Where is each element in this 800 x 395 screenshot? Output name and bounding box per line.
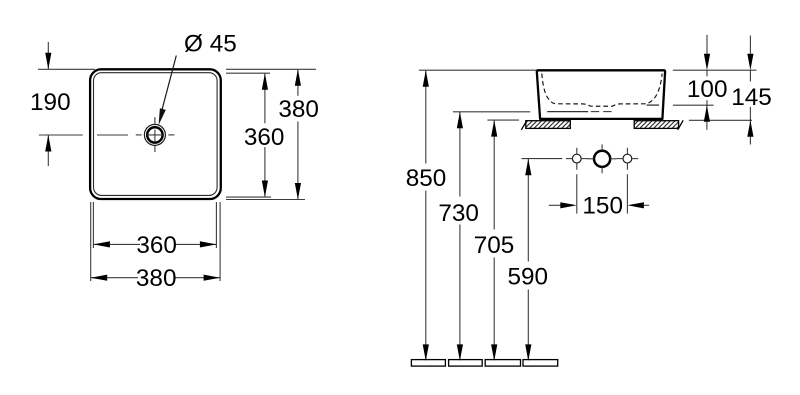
dim 145 text <box>731 84 772 111</box>
dim 850 text <box>406 165 447 192</box>
basin outer outline (top view) <box>90 69 221 199</box>
right side ext line 360 top <box>226 72 270 74</box>
counter cut tick left <box>521 120 527 130</box>
dim 850 arrows <box>423 70 429 361</box>
dim 360 horizontal line <box>93 243 216 245</box>
svg-text:380: 380 <box>278 96 319 123</box>
ext line below supply left <box>576 174 578 213</box>
dim 145 stubs <box>749 70 751 120</box>
drain circle cross <box>588 144 617 173</box>
dim 730 arrows <box>457 112 463 361</box>
ext line below supply right <box>626 174 628 213</box>
basin inner rim line (top view) <box>94 73 218 196</box>
dim 360 horizontal arrows <box>93 241 216 247</box>
ext line 705 top <box>487 119 519 121</box>
dim 190 bottom extension line <box>39 134 83 136</box>
bottom ext line 360 right <box>215 202 217 248</box>
dim 380 horizontal line <box>91 277 220 279</box>
side view inner floor line right <box>647 104 659 106</box>
dim 705 arrows <box>491 120 497 361</box>
dim 705 text <box>474 232 515 259</box>
tap hole inner circle <box>147 127 162 142</box>
dim 150 left arrow <box>549 202 577 208</box>
svg-text:380: 380 <box>136 265 177 292</box>
dim 730 vertical <box>459 112 461 359</box>
svg-text:705: 705 <box>474 232 515 259</box>
floor mark 4 <box>523 360 558 367</box>
side view inner bowl (dashed) <box>542 74 662 107</box>
ext line 850 top <box>419 69 536 71</box>
dim 190 top extension line <box>38 68 95 70</box>
svg-text:100: 100 <box>687 76 728 103</box>
dim 190 top arrow <box>45 42 51 69</box>
floor mark 2 <box>449 360 483 367</box>
ext line 100 bottom <box>673 104 714 106</box>
svg-text:360: 360 <box>136 232 177 259</box>
dim 100 bottom arrow <box>704 105 710 130</box>
dim 100 stubs <box>706 70 708 105</box>
svg-text:145: 145 <box>731 84 772 111</box>
dim 380 vertical arrows <box>295 69 301 199</box>
dim 590 arrows <box>525 159 531 361</box>
dim 150 text <box>582 193 623 220</box>
dim 380 vertical text <box>278 96 319 123</box>
dim 150 right arrow <box>627 202 649 208</box>
dim 590 text <box>508 263 549 290</box>
counter cut tick right <box>678 120 684 130</box>
bottom ext line 380 left <box>90 202 92 281</box>
side view basin outline <box>537 70 665 119</box>
dim 145 top arrow <box>747 36 753 71</box>
dim 380 vertical line <box>297 69 299 199</box>
svg-text:590: 590 <box>508 263 549 290</box>
counter cross-section right <box>634 121 678 129</box>
counter cross-section left <box>526 121 571 129</box>
supply circle left <box>572 154 581 163</box>
label Ø 45 <box>184 30 237 57</box>
right side ext line 360 bottom <box>226 196 271 198</box>
dim 730 text <box>438 200 479 227</box>
svg-text:Ø 45: Ø 45 <box>184 30 237 57</box>
side view inner floor line left <box>547 111 588 113</box>
ext line right top <box>673 69 757 71</box>
dim 360 vertical line <box>264 74 266 197</box>
hole centreline extension (dash) <box>97 134 128 136</box>
dim 145 bottom arrow <box>747 120 753 144</box>
tap hole centre mark vertical <box>154 117 156 152</box>
dim 380 horizontal text <box>136 265 177 292</box>
connector line 590 to circles <box>522 158 563 160</box>
bottom ext line 380 right <box>219 202 221 281</box>
svg-text:360: 360 <box>244 124 285 151</box>
dim 100 text <box>687 76 728 103</box>
dim 190 bottom arrow <box>45 135 51 166</box>
drain circle centre <box>594 151 610 167</box>
svg-text:730: 730 <box>438 200 479 227</box>
right side ext line 380 bottom <box>226 199 305 201</box>
svg-text:190: 190 <box>30 89 71 116</box>
ext line 730 top <box>453 111 530 113</box>
floor mark 3 <box>485 360 520 367</box>
tap hole centre mark horizontal <box>136 134 175 136</box>
svg-text:150: 150 <box>582 193 623 220</box>
dim 850 vertical <box>425 70 427 359</box>
ext line 145 bottom <box>689 119 752 121</box>
dim 705 vertical <box>493 120 495 359</box>
leader line to tap hole <box>159 56 177 126</box>
dim 590 vertical <box>527 159 529 359</box>
bottom ext line 360 left <box>92 202 94 248</box>
dim 360 vertical text <box>244 124 285 151</box>
floor mark 1 <box>411 360 445 367</box>
dim 360 vertical arrows <box>262 73 268 197</box>
supply circle left cross <box>566 148 589 170</box>
supply circle right cross <box>617 148 639 170</box>
tap hole outer circle <box>144 124 165 145</box>
right side ext line 380 top <box>226 68 316 70</box>
dim 380 horizontal arrows <box>91 275 220 281</box>
dim 360 horizontal text <box>136 232 177 259</box>
side view drain dashes <box>591 111 612 113</box>
svg-text:850: 850 <box>406 165 447 192</box>
supply circle right <box>623 154 632 163</box>
dim 190 text <box>30 89 71 116</box>
dim 100 top arrow <box>704 35 710 70</box>
